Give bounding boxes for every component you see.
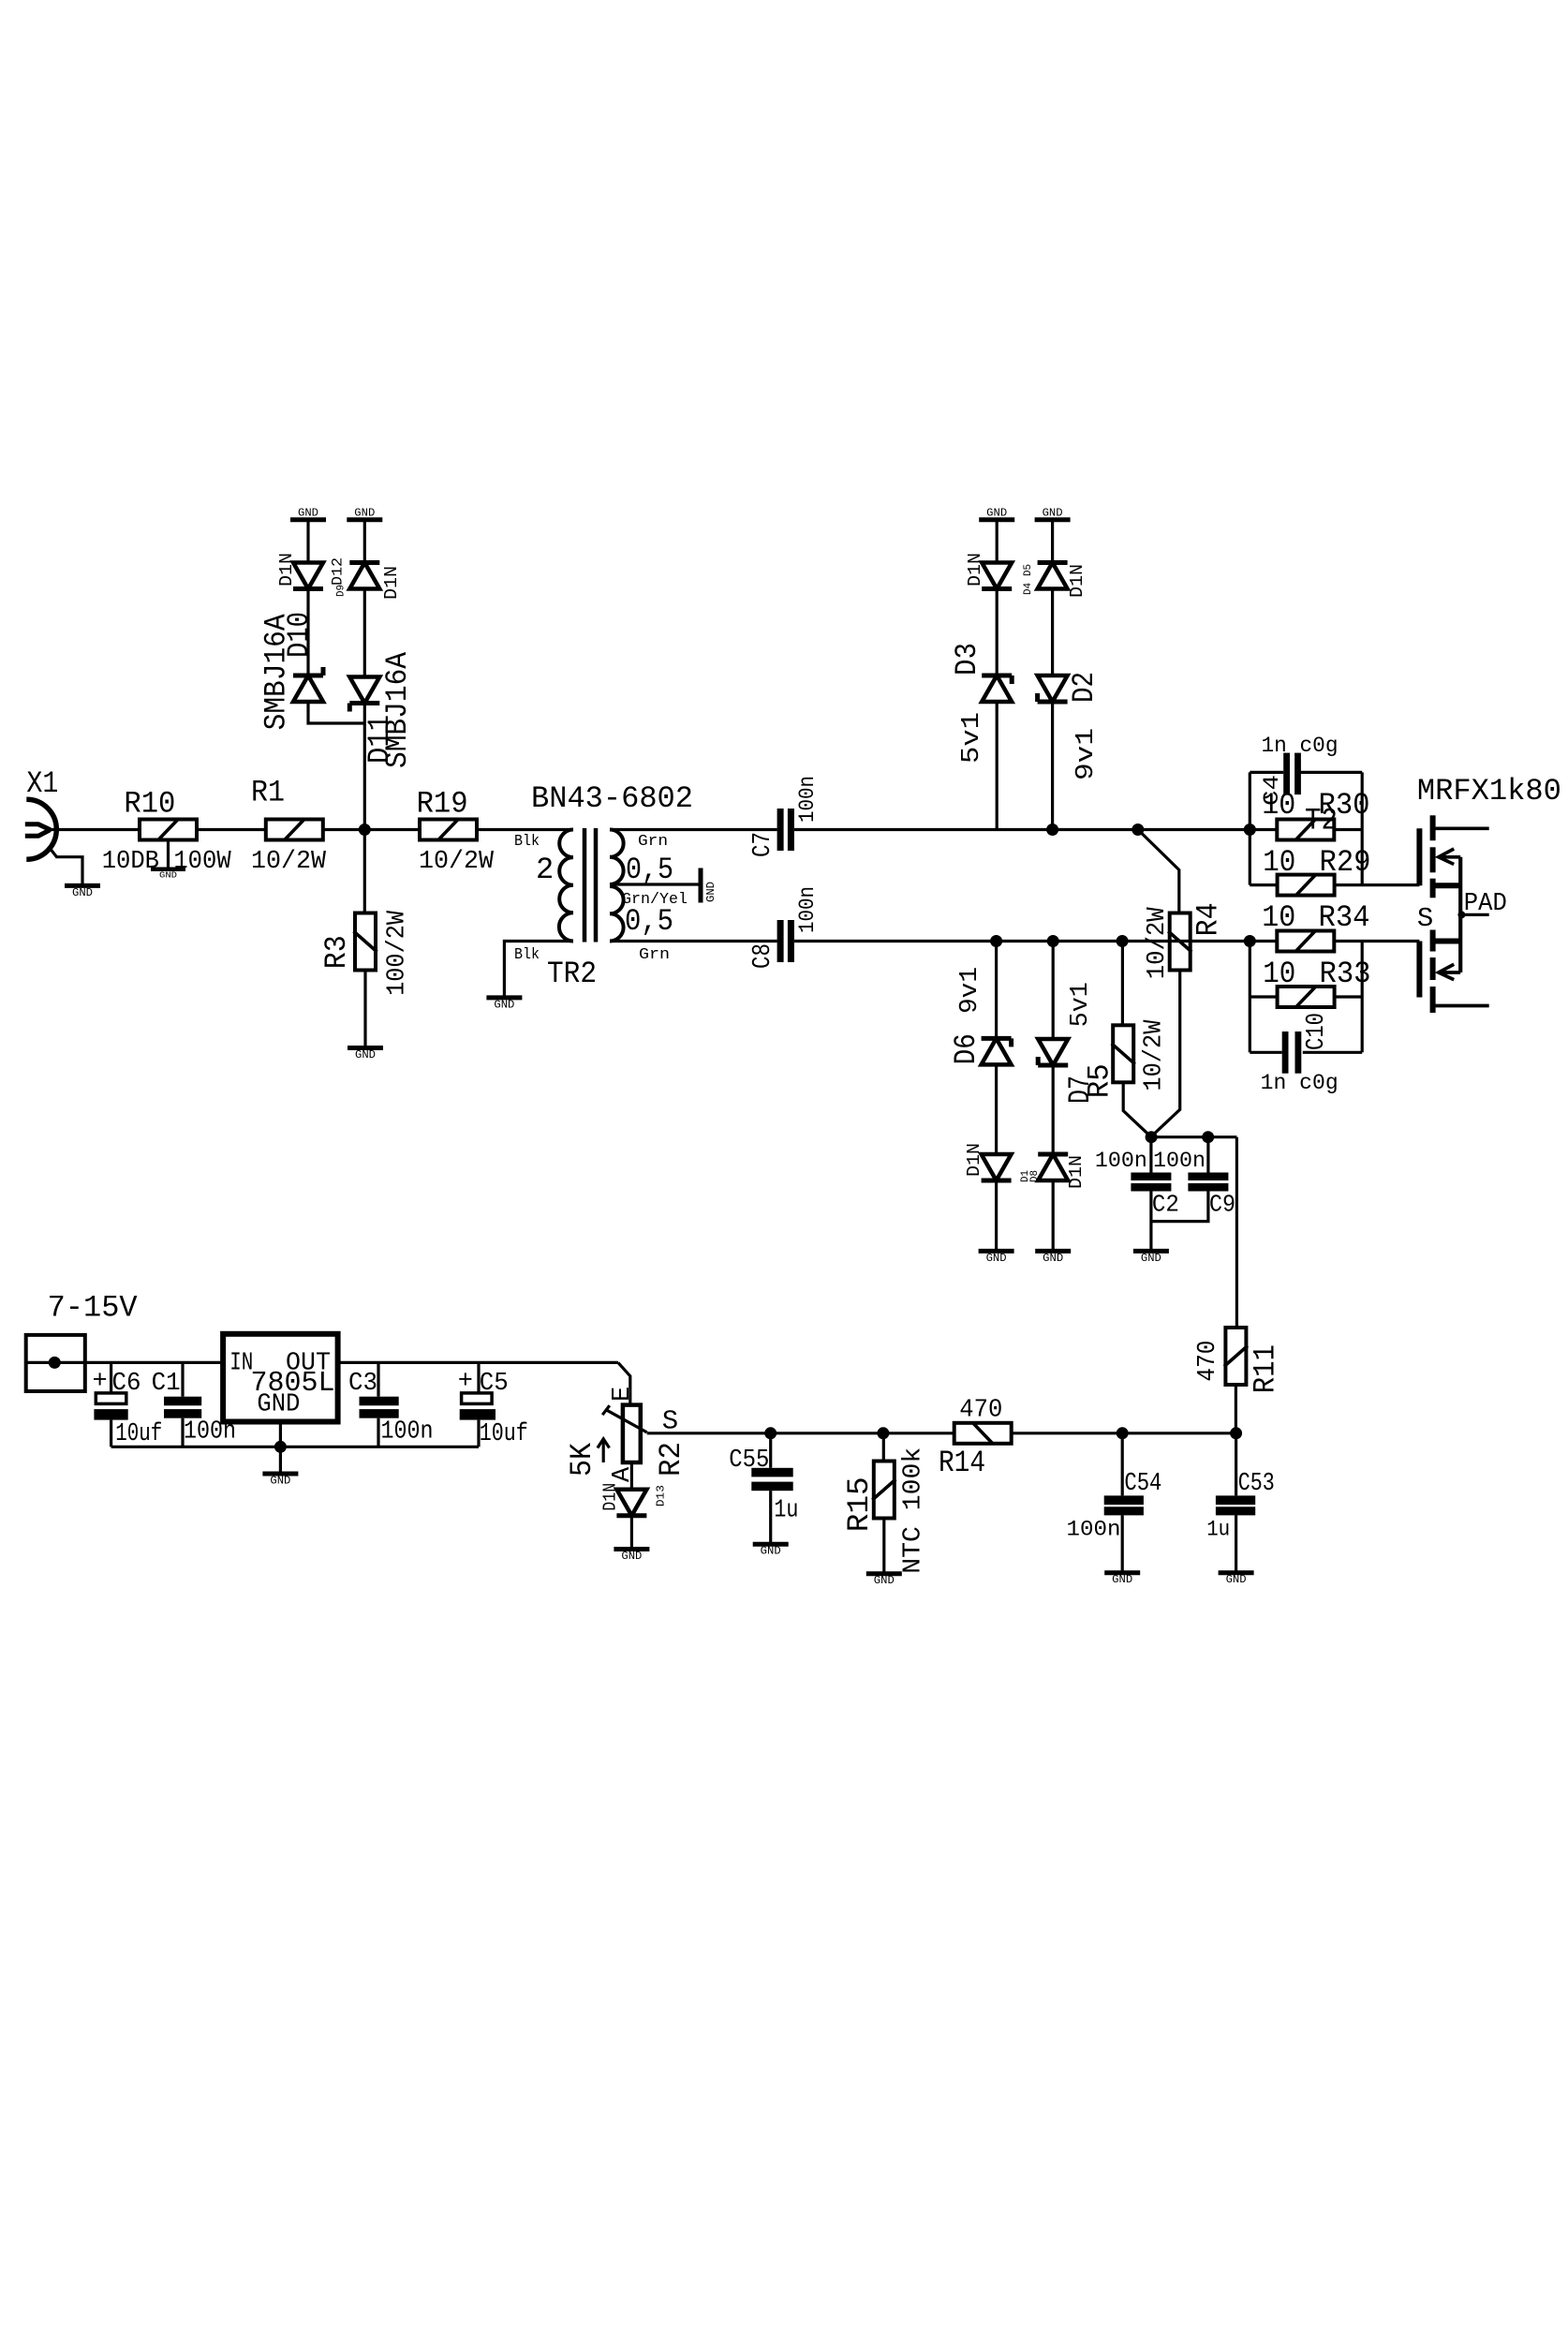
svg-text:Grn: Grn (639, 946, 670, 964)
zener D7 (1038, 982, 1098, 1104)
zener D3 (950, 643, 1012, 764)
ground above D5 (1035, 508, 1071, 520)
svg-text:PAD: PAD (1464, 890, 1507, 918)
diode D8 D1N (1029, 1154, 1087, 1189)
resistor R5 (1083, 1019, 1169, 1098)
capacitor C6 (93, 1368, 163, 1448)
wire cell left vertical top (1249, 772, 1251, 884)
wire R3 to ground (363, 971, 366, 1048)
svg-text:SMBJ16A: SMBJ16A (380, 651, 415, 768)
svg-text:D1N: D1N (276, 553, 297, 586)
capacitor C1 (152, 1370, 236, 1446)
junction dot D6 bus (990, 935, 1002, 947)
wire R10 center tap (167, 840, 170, 869)
mosfet Q1 upper body arrow (1439, 849, 1460, 865)
wire regulator gnd pin (279, 1422, 282, 1447)
mosfet Q1 upper source (1433, 883, 1459, 888)
capacitor C4 (1260, 734, 1339, 806)
diode D9 D1N (276, 553, 348, 597)
svg-text:10: 10 (1263, 957, 1295, 991)
node main junction (359, 824, 371, 836)
svg-text:D3: D3 (950, 643, 984, 675)
svg-text:GND: GND (1043, 508, 1063, 520)
resistor R33 (1263, 957, 1370, 1008)
ground under R3 (348, 1048, 383, 1062)
junction dot C55 (764, 1427, 777, 1439)
svg-text:GND: GND (355, 1049, 376, 1061)
wire R1 to node (323, 828, 365, 831)
svg-text:GND: GND (298, 508, 318, 520)
ground under R10 (151, 869, 185, 881)
svg-text:10/2W: 10/2W (251, 848, 327, 876)
junction dot D7 bus (1047, 935, 1059, 947)
transformer TR2 core (584, 828, 596, 942)
wire C54 to ground (1121, 1515, 1124, 1572)
svg-text:470: 470 (959, 1396, 1002, 1424)
wire TR2 center tap (610, 883, 701, 885)
svg-text:GND: GND (1141, 1253, 1161, 1265)
svg-text:D1N: D1N (1066, 1155, 1087, 1189)
ground under R15 (866, 1574, 902, 1588)
svg-text:100n: 100n (795, 886, 820, 933)
transformer TR2 secondary top (610, 830, 624, 885)
wire R29 to gate (1335, 883, 1420, 886)
wire R4 to C2 node (1151, 971, 1180, 1137)
svg-text:10: 10 (1263, 845, 1295, 880)
svg-text:R1: R1 (251, 776, 285, 810)
mosfet Q1 upper drain (1433, 826, 1489, 830)
wire bottom rail (111, 1446, 479, 1448)
svg-text:GND: GND (621, 1551, 642, 1563)
wire C55 tap (769, 1433, 772, 1468)
svg-text:7-15V: 7-15V (48, 1291, 139, 1326)
svg-text:C8: C8 (749, 943, 777, 969)
ground under C54 (1104, 1573, 1140, 1587)
diode D13 D1N (599, 1483, 667, 1516)
svg-text:+: + (458, 1368, 473, 1396)
resistor R4 (1144, 902, 1225, 979)
wire D11 to node (363, 704, 366, 830)
svg-text:10/2W: 10/2W (1141, 1019, 1169, 1091)
svg-text:1n c0g: 1n c0g (1261, 1071, 1339, 1095)
svg-text:D2: D2 (1067, 672, 1102, 703)
ground at TR2 tap (701, 868, 717, 903)
wire D5 to D2 (1051, 589, 1054, 675)
wire C9 node to R11 (1235, 1137, 1238, 1328)
capacitor C8 (749, 886, 820, 969)
capacitor C3 (348, 1370, 434, 1446)
wire X1 to R10 (51, 828, 140, 831)
svg-text:10/2W: 10/2W (1144, 907, 1172, 980)
wire R33 left (1250, 995, 1277, 998)
zener D6 (949, 967, 1012, 1064)
wire C1 tap (181, 1362, 184, 1396)
mosfet Q1 upper channel (1430, 815, 1436, 898)
junction dot D2 bus (1046, 824, 1058, 836)
wire cell bottom edge (1250, 1051, 1362, 1054)
wire C5 tap (477, 1362, 480, 1393)
wire cell right vertical bottom (1361, 942, 1364, 1053)
wire D9 to D10 (306, 589, 309, 675)
wire R15 tap (882, 1433, 885, 1462)
svg-text:1u: 1u (774, 1497, 798, 1525)
wire C2 to ground (1149, 1192, 1152, 1252)
mosfet source junction vertical (1458, 857, 1462, 972)
wire D7 to D8 (1052, 1065, 1055, 1154)
junction dot C54 (1117, 1427, 1129, 1439)
svg-text:1n c0g: 1n c0g (1262, 734, 1339, 758)
wire R10 to R1 (197, 828, 266, 831)
svg-text:R10: R10 (124, 787, 175, 822)
wire TR2 to C8 (610, 940, 777, 942)
junction dot PAD (1457, 911, 1465, 918)
wire R30 right (1335, 828, 1363, 831)
mosfet Q1 upper gate (1416, 828, 1422, 885)
resistor R30 (1262, 788, 1369, 840)
svg-text:GND: GND (986, 1253, 1007, 1265)
ground under D13 (614, 1550, 649, 1564)
trimmer R2 (565, 1387, 688, 1482)
mosfet Q2 lower drain (1433, 1004, 1489, 1008)
wire C55 to ground (769, 1491, 772, 1544)
svg-text:D1N: D1N (1067, 564, 1087, 598)
wire R11 to bottom (1235, 1385, 1237, 1433)
resistor R15 (842, 1447, 928, 1574)
svg-text:+: + (93, 1368, 108, 1396)
svg-text:SMBJ16A: SMBJ16A (259, 614, 294, 731)
junction dot C53 (1230, 1427, 1242, 1439)
wire rail bend to R2 (618, 1362, 630, 1404)
svg-text:D1N: D1N (599, 1483, 620, 1511)
svg-text:10uf: 10uf (480, 1420, 528, 1448)
label MRFX1k80 (1417, 774, 1561, 809)
svg-text:5v1: 5v1 (1067, 982, 1095, 1027)
wire C3 to rail (377, 1418, 379, 1447)
wire C6 to rail (110, 1420, 112, 1447)
wire D8 to ground (1052, 1180, 1055, 1251)
svg-text:D4: D4 (1023, 583, 1034, 595)
svg-text:C55: C55 (729, 1447, 769, 1475)
svg-text:100n: 100n (381, 1418, 434, 1447)
svg-text:X1: X1 (26, 766, 58, 801)
wire regulator out (338, 1361, 618, 1364)
wire C8 to bus (794, 940, 1250, 942)
connector input box (26, 1335, 85, 1391)
svg-text:C2: C2 (1152, 1191, 1179, 1219)
svg-text:D13: D13 (656, 1485, 668, 1506)
wire TR2 primary bottom (504, 942, 573, 997)
mosfet Q2 lower gate (1416, 942, 1422, 998)
svg-text:C9: C9 (1209, 1191, 1235, 1219)
svg-text:R15: R15 (842, 1477, 877, 1532)
svg-text:GND: GND (354, 508, 375, 520)
svg-text:C3: C3 (348, 1370, 377, 1398)
capacitor C54 (1067, 1470, 1162, 1542)
svg-text:R2: R2 (654, 1442, 688, 1477)
capacitor C9 (1153, 1149, 1235, 1218)
wire C5 to rail (477, 1420, 480, 1447)
resistor R3 (319, 910, 411, 996)
diode D5 D1N (1038, 563, 1087, 599)
svg-text:D6: D6 (949, 1033, 984, 1064)
wire D4 to D3 (996, 589, 998, 675)
wire R2 to D13 (630, 1462, 633, 1490)
svg-text:R3: R3 (319, 935, 354, 969)
svg-text:D5: D5 (1023, 564, 1034, 576)
regulator IC1 7805L (223, 1334, 338, 1422)
svg-text:100n: 100n (1153, 1149, 1206, 1173)
resistor R19 (417, 787, 495, 877)
svg-text:R11: R11 (1248, 1344, 1282, 1393)
svg-text:Blk: Blk (514, 946, 540, 964)
wire C54 tap (1121, 1433, 1124, 1496)
resistor R1 (251, 776, 327, 877)
svg-text:GND: GND (1043, 1253, 1063, 1265)
wire gnd to D12 (363, 520, 366, 563)
diode D4 D1N (965, 553, 1034, 595)
wire D12 to D11 (363, 589, 366, 677)
resistor R11 (1194, 1328, 1282, 1393)
wire R15 to ground (882, 1519, 885, 1573)
svg-text:C7: C7 (749, 832, 777, 857)
resistor R14 (939, 1396, 1012, 1480)
junction dot C9 (1202, 1131, 1214, 1143)
svg-text:NTC 100k: NTC 100k (900, 1447, 928, 1574)
wire D6 to D1 (995, 1064, 998, 1154)
ground under TR2 (486, 998, 522, 1012)
svg-text:S: S (1417, 903, 1433, 934)
label 7-15V (48, 1291, 139, 1326)
wire cell right vertical top (1361, 772, 1364, 884)
svg-text:10/2W: 10/2W (419, 848, 495, 876)
junction dot R4 bus (1132, 824, 1144, 836)
tvs D10 SMBJ16A (259, 612, 324, 730)
ground under D8 (1035, 1251, 1071, 1265)
wire C6 tap (110, 1362, 112, 1393)
resistor R10 (102, 787, 232, 877)
svg-text:R34: R34 (1319, 900, 1370, 935)
svg-text:GND: GND (874, 1575, 895, 1587)
svg-text:9v1: 9v1 (956, 967, 984, 1014)
junction dot cell bottom (1244, 935, 1256, 947)
wire R5 to C2 node (1123, 1082, 1151, 1136)
svg-text:C1: C1 (152, 1370, 181, 1398)
svg-text:C53: C53 (1238, 1470, 1275, 1498)
svg-text:D1N: D1N (964, 1143, 984, 1177)
svg-text:C54: C54 (1124, 1470, 1161, 1498)
svg-text:GND: GND (494, 999, 514, 1011)
wire D3 to bus (996, 702, 998, 830)
svg-text:T2: T2 (1305, 804, 1338, 839)
wire cell left vertical bottom (1249, 942, 1251, 1053)
ground under regulator (262, 1474, 298, 1488)
ground above D4 (979, 508, 1014, 520)
wire C1 to rail (181, 1418, 184, 1447)
wire C55 to R14 (771, 1432, 954, 1434)
svg-text:R14: R14 (939, 1446, 985, 1480)
junction dot R5 bus (1117, 935, 1129, 947)
diode D12 D1N (330, 557, 403, 600)
svg-text:10: 10 (1262, 788, 1295, 823)
wire R33 right (1335, 995, 1363, 998)
svg-text:GND: GND (761, 1546, 781, 1558)
svg-text:GND: GND (986, 508, 1007, 520)
wire TR2 to C7 (610, 828, 777, 831)
wire R34 left lead (1250, 940, 1277, 942)
svg-text:D12: D12 (330, 557, 347, 586)
svg-text:Grn: Grn (638, 833, 668, 851)
svg-text:GND: GND (1226, 1574, 1247, 1586)
capacitor C55 (729, 1447, 798, 1525)
capacitor C5 (458, 1368, 528, 1448)
wire node to R3 (363, 830, 366, 913)
wire R29 left (1250, 883, 1277, 886)
svg-text:D1N: D1N (381, 566, 402, 600)
svg-text:GND: GND (1112, 1574, 1132, 1586)
wire PAD lead (1417, 890, 1507, 934)
resistor R34 (1262, 900, 1369, 952)
wire C7 to bus (794, 828, 1250, 831)
wire C3 tap (377, 1362, 379, 1396)
capacitor C10 (1261, 1013, 1339, 1095)
svg-text:10uf: 10uf (115, 1420, 162, 1448)
svg-text:100/2W: 100/2W (383, 910, 411, 996)
wire gnd to D5 (1051, 520, 1054, 563)
junction dot R15 (877, 1427, 889, 1439)
ground under X1 (65, 885, 100, 899)
label net T2 (1305, 804, 1338, 839)
svg-text:C5: C5 (480, 1370, 509, 1398)
svg-text:2: 2 (536, 853, 554, 887)
label TR2 texts (514, 781, 693, 991)
transformer TR2 primary (559, 830, 573, 942)
wire C9 to C2 ground (1152, 1192, 1208, 1222)
svg-text:Blk: Blk (514, 833, 540, 851)
wire input to regulator (85, 1361, 223, 1364)
connector X1 (25, 766, 59, 859)
wire gnd to D9 (306, 520, 309, 563)
wire R30 left (1250, 828, 1277, 831)
wire D2 to bus (1051, 702, 1054, 829)
wire bus to R5 (1121, 942, 1124, 1026)
transformer TR2 secondary bottom (610, 886, 624, 942)
wire R34 right lead to gate (1335, 940, 1420, 942)
mosfet Q2 lower body arrow (1439, 964, 1460, 980)
svg-text:GND: GND (159, 870, 177, 881)
svg-text:100n: 100n (1095, 1149, 1147, 1173)
svg-text:R4: R4 (1191, 902, 1225, 936)
svg-text:E: E (609, 1387, 637, 1402)
svg-text:100n: 100n (795, 776, 820, 823)
ground under C55 (753, 1544, 789, 1558)
svg-text:1u: 1u (1206, 1518, 1230, 1542)
ground above D9 (290, 508, 326, 520)
svg-text:5v1: 5v1 (958, 712, 986, 764)
wire C53 to ground (1235, 1515, 1237, 1572)
ground under C53 (1219, 1573, 1254, 1587)
svg-text:C6: C6 (112, 1370, 141, 1398)
svg-text:0,5: 0,5 (626, 853, 673, 887)
wire D1 to ground (995, 1180, 998, 1251)
svg-text:R5: R5 (1083, 1063, 1117, 1098)
svg-text:D1N: D1N (965, 553, 985, 586)
mosfet Q2 lower source (1433, 939, 1459, 944)
capacitor C2 (1095, 1149, 1179, 1218)
svg-text:GND: GND (257, 1391, 300, 1419)
wire X1 ground tail (50, 848, 82, 885)
svg-text:TR2: TR2 (547, 957, 597, 991)
svg-text:0,5: 0,5 (625, 904, 673, 939)
wire D10 to jog (308, 702, 364, 723)
resistor R29 (1263, 845, 1370, 896)
wire C2 node to C9 node (1151, 1135, 1236, 1138)
zener D2 (1038, 672, 1102, 780)
wire rail to ground (279, 1447, 282, 1474)
svg-text:GND: GND (705, 882, 717, 902)
junction dot C2 (1146, 1131, 1158, 1143)
svg-text:BN43-6802: BN43-6802 (531, 781, 693, 816)
svg-text:MRFX1k80: MRFX1k80 (1417, 774, 1561, 809)
wire bus to D7 (1052, 942, 1055, 1040)
svg-text:470: 470 (1194, 1341, 1222, 1382)
wire R14 to C54 (1012, 1432, 1236, 1434)
wire bus to D6 (995, 942, 998, 1039)
svg-text:GND: GND (72, 887, 93, 899)
svg-text:9v1: 9v1 (1072, 728, 1101, 780)
svg-text:GND: GND (270, 1476, 290, 1488)
mosfet Q2 lower channel (1430, 930, 1436, 1014)
wire R2 wiper out (647, 1432, 771, 1434)
svg-text:R19: R19 (417, 787, 468, 822)
wire bus diagonal to R4 (1138, 830, 1179, 913)
wire R19 to TR2 (477, 828, 573, 831)
svg-text:C10: C10 (1303, 1013, 1331, 1050)
capacitor C53 (1206, 1470, 1275, 1542)
ground under D1 (979, 1251, 1014, 1265)
wire node to R19 (364, 828, 420, 831)
wire gnd to D4 (996, 520, 998, 563)
wire D13 to ground (630, 1516, 633, 1550)
svg-text:D8: D8 (1029, 1170, 1041, 1182)
wire cell top edge (1250, 771, 1362, 774)
ground under C2 (1133, 1251, 1169, 1265)
wire C2 node to plates (1149, 1137, 1152, 1173)
ground above D12 (347, 508, 382, 520)
wire C9 node to plates (1206, 1137, 1209, 1173)
wire C53 tap (1235, 1433, 1237, 1496)
tvs D11 SMBJ16A (349, 651, 415, 768)
svg-text:10: 10 (1262, 900, 1295, 935)
junction dot cell top (1244, 824, 1256, 836)
junction dot rail gnd (274, 1441, 287, 1453)
svg-text:5K: 5K (565, 1442, 599, 1477)
svg-text:100n: 100n (1067, 1518, 1121, 1542)
capacitor C7 (749, 776, 820, 857)
diode D1 D1N (964, 1143, 1031, 1182)
